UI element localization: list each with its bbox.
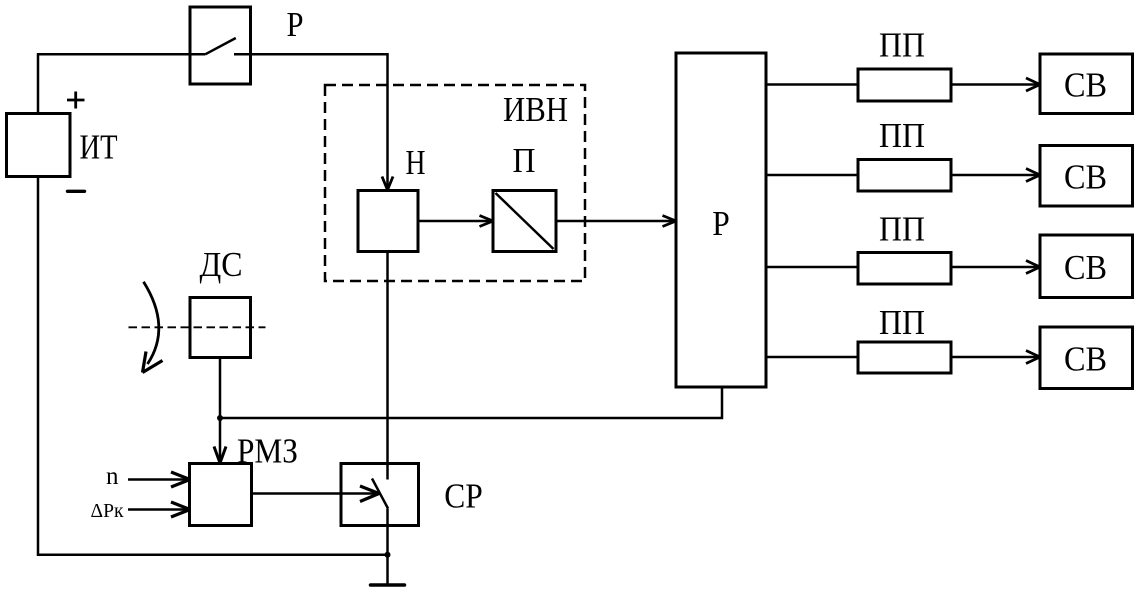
feedback wire from Р bottom to junction bbox=[220, 387, 722, 418]
СВ box 1 bbox=[1040, 54, 1133, 114]
minus sign bbox=[68, 190, 85, 193]
svg-text:РМЗ: РМЗ bbox=[237, 432, 298, 471]
wire breaker to top-right corner and down to Н bbox=[234, 54, 388, 188]
svg-text:СВ: СВ bbox=[1064, 157, 1107, 196]
ДС box bbox=[190, 298, 251, 358]
П box diagonal bbox=[496, 193, 554, 249]
dashed box ИВН bbox=[325, 85, 585, 281]
svg-text:ИВН: ИВН bbox=[503, 90, 568, 129]
plus sign bbox=[67, 92, 85, 109]
svg-text:n: n bbox=[106, 463, 119, 490]
svg-text:Р: Р bbox=[712, 204, 730, 243]
СВ box 4 bbox=[1040, 327, 1133, 389]
arrowhead into Н bbox=[382, 177, 393, 191]
wire ПП2 to СВ2 bbox=[951, 174, 1038, 177]
П box bbox=[493, 191, 556, 252]
ΔРк input arrow bbox=[128, 508, 188, 511]
wire РМЗ to СР bbox=[252, 492, 377, 495]
wire Р row3 to ПП3 bbox=[766, 266, 858, 269]
svg-text:ΔРк: ΔРк bbox=[91, 500, 124, 522]
Н box bbox=[358, 191, 418, 252]
arrowhead into Р bbox=[663, 216, 677, 227]
СР box bbox=[341, 464, 419, 526]
arrowhead into СВ2 bbox=[1026, 169, 1040, 182]
arrowhead into СВ4 bbox=[1026, 351, 1040, 364]
svg-text:СР: СР bbox=[444, 477, 483, 516]
wire П to Р bbox=[556, 220, 674, 223]
breaker switch blade bbox=[206, 38, 236, 54]
wire ДС bottom to junction and down to РМЗ bbox=[219, 358, 222, 462]
ПП box 3 bbox=[858, 253, 951, 285]
wire Р row4 to ПП4 bbox=[766, 356, 858, 359]
wire ПП3 to СВ3 bbox=[951, 266, 1038, 269]
wire Р row1 to ПП1 bbox=[766, 83, 858, 86]
wire Р row2 to ПП2 bbox=[766, 174, 858, 177]
ИТ box bbox=[7, 114, 71, 177]
svg-text:П: П bbox=[513, 141, 536, 180]
arrowhead into СВ1 bbox=[1026, 78, 1040, 91]
junction node dot bottom bbox=[385, 552, 391, 558]
wire left loop from ИТ top to breaker bbox=[38, 54, 206, 115]
svg-text:ИТ: ИТ bbox=[80, 127, 118, 166]
svg-text:Р: Р bbox=[287, 5, 304, 44]
arrowhead into РМЗ bbox=[214, 447, 226, 464]
Р distributor box bbox=[676, 53, 766, 387]
svg-text:Н: Н bbox=[406, 143, 426, 182]
svg-text:ПП: ПП bbox=[879, 209, 925, 248]
svg-text:ПП: ПП bbox=[879, 116, 925, 155]
arrowhead into СР bbox=[360, 486, 379, 502]
svg-text:СВ: СВ bbox=[1064, 65, 1107, 104]
svg-text:ПП: ПП bbox=[879, 303, 925, 342]
svg-text:СВ: СВ bbox=[1064, 339, 1107, 378]
junction node dot bbox=[217, 415, 223, 421]
wire Н bottom down through СР to switch contact bbox=[386, 252, 389, 480]
РМЗ box bbox=[190, 464, 252, 526]
arrowhead into СВ3 bbox=[1026, 261, 1040, 274]
СВ box 2 bbox=[1040, 146, 1133, 207]
svg-text:СВ: СВ bbox=[1064, 248, 1107, 287]
wire СР bottom to ground bbox=[386, 509, 389, 585]
ПП box 1 bbox=[858, 69, 951, 101]
breaker box Р bbox=[190, 7, 251, 84]
n input arrow bbox=[128, 478, 188, 481]
rotation arc arrow bbox=[144, 282, 159, 364]
wire ПП1 to СВ1 bbox=[951, 83, 1038, 86]
wire Н to П bbox=[418, 220, 491, 223]
ПП box 4 bbox=[858, 342, 951, 373]
ground bar bbox=[371, 583, 405, 587]
ПП box 2 bbox=[858, 160, 951, 192]
svg-text:ПП: ПП bbox=[879, 25, 925, 64]
svg-text:ДС: ДС bbox=[200, 245, 243, 284]
СР switch blade bbox=[372, 479, 388, 509]
dashed axis line through ДС bbox=[129, 326, 266, 328]
wire ИТ bottom down and along bottom bbox=[38, 177, 388, 555]
wire ПП4 to СВ4 bbox=[951, 356, 1038, 359]
СВ box 3 bbox=[1040, 235, 1133, 298]
arrowhead into П bbox=[480, 216, 494, 227]
